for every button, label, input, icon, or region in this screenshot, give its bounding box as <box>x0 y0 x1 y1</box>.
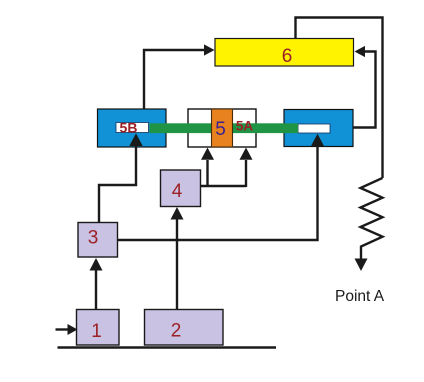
box 3 <box>78 223 118 258</box>
ground line <box>58 346 277 349</box>
wire: box 1 top to box 3 <box>90 258 103 310</box>
right white slot <box>298 124 330 133</box>
svg-text:5A: 5A <box>236 119 254 134</box>
svg-text:Point A: Point A <box>335 288 385 305</box>
svg-text:6: 6 <box>282 46 293 67</box>
wire: box 2 top to box 4 <box>171 207 184 310</box>
svg-text:5B: 5B <box>120 120 138 136</box>
box 1 <box>77 310 120 346</box>
box 6 (yellow) <box>215 39 354 68</box>
svg-text:1: 1 <box>91 321 102 342</box>
wire: right blue box to yellow box 6 right side <box>353 46 376 128</box>
wire: box 3 right to right slot <box>118 134 325 240</box>
resistor zigzag <box>361 178 383 260</box>
left white slot <box>116 123 149 133</box>
wire: box 4 right branch to middle box <box>201 148 253 188</box>
orange bar (5) <box>212 109 233 147</box>
wire: box 3 top to left slot <box>99 133 143 222</box>
green bar (shaft) <box>150 123 299 133</box>
middle white box (valve body) <box>188 109 256 147</box>
right blue box (5A housing) <box>284 110 353 147</box>
arrow to Point A <box>355 259 368 272</box>
input arrow into box 1 <box>56 324 78 335</box>
wire: yellow box top over to right rail <box>296 18 383 179</box>
svg-text:4: 4 <box>172 181 183 202</box>
svg-text:2: 2 <box>171 321 182 342</box>
box 2 <box>145 310 224 346</box>
svg-text:3: 3 <box>88 228 99 249</box>
wire: left blue box top to yellow box 6 <box>144 44 215 109</box>
box 4 <box>161 170 201 207</box>
svg-text:5: 5 <box>215 119 226 140</box>
left blue box (5B housing) <box>98 109 167 147</box>
